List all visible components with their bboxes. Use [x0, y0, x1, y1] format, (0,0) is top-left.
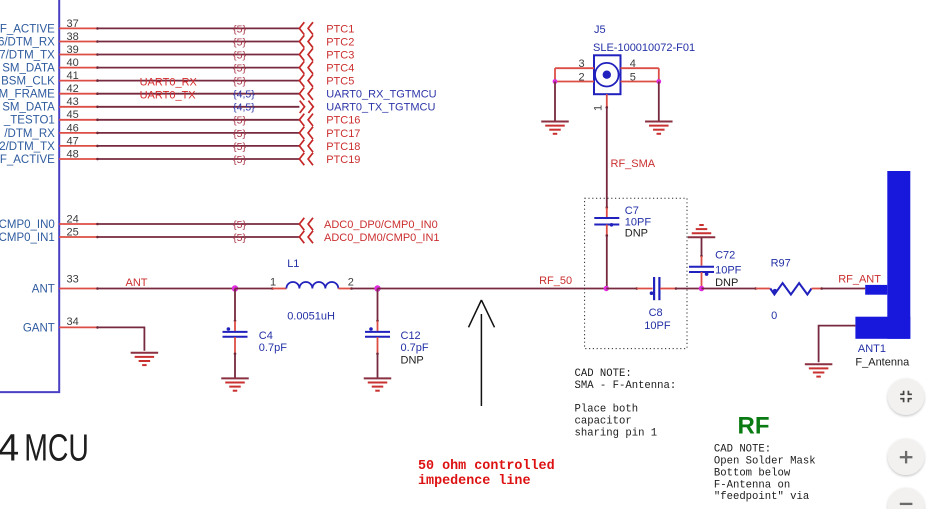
svg-text:CMP0_IN1: CMP0_IN1	[0, 232, 55, 244]
dashed annotation box around C7/C8	[585, 198, 687, 348]
svg-text:0.0051uH: 0.0051uH	[287, 311, 335, 323]
ground above C72 (inverted)	[688, 225, 716, 237]
svg-text:45: 45	[67, 109, 79, 121]
svg-text:UART0_TX_TGTMCU: UART0_TX_TGTMCU	[326, 102, 435, 114]
svg-text:PTC19: PTC19	[326, 154, 360, 166]
svg-text:39: 39	[67, 44, 79, 56]
wire net RF_50 (C12 junction to RF_SMA junction)	[378, 288, 607, 290]
off-page connector PTC17	[299, 127, 313, 139]
UI button: zoom in	[888, 438, 925, 475]
MCU pin 33 (ANT) stub	[59, 287, 99, 290]
svg-text:CAD NOTE:: CAD NOTE:	[575, 368, 632, 380]
svg-text:34: 34	[67, 316, 79, 328]
C72 top wire from ground	[700, 237, 703, 265]
svg-text:/DTM_RX: /DTM_RX	[4, 128, 55, 140]
svg-text:{5}: {5}	[233, 23, 246, 35]
wire net PTC5	[98, 80, 300, 82]
svg-text:UART0_RX: UART0_RX	[140, 77, 198, 89]
svg-text:7/DTM_TX: 7/DTM_TX	[0, 49, 55, 61]
svg-text:Place both: Place both	[575, 404, 639, 416]
wire net PTC19	[98, 158, 300, 160]
svg-text:UART0_RX_TGTMCU: UART0_RX_TGTMCU	[326, 89, 436, 101]
svg-text:4: 4	[0, 427, 19, 469]
svg-text:{5}: {5}	[233, 128, 246, 140]
off-page connector PTC16	[299, 114, 313, 126]
MCU pin 37 (F_ACTIVE) stub	[59, 27, 99, 30]
C8 pin-1 marker dot	[650, 291, 654, 295]
svg-text:PTC2: PTC2	[326, 36, 354, 48]
MCU pin 41 (BSM_CLK) stub	[59, 79, 99, 82]
svg-text:{4,5}: {4,5}	[233, 89, 255, 101]
svg-text:RF_SMA: RF_SMA	[611, 158, 656, 170]
ground below C4	[221, 378, 249, 390]
CAD note (Open Solder Mask)	[714, 444, 816, 503]
svg-text:42: 42	[67, 83, 79, 95]
svg-text:RF: RF	[738, 412, 770, 439]
MCU pin 42 (M_FRAME) stub	[59, 92, 99, 95]
off-page connector PTC2	[299, 35, 313, 47]
svg-text:Bottom below: Bottom below	[714, 467, 791, 479]
junction right of J5	[656, 79, 661, 84]
svg-text:F-Antenna on: F-Antenna on	[714, 479, 790, 491]
svg-text:{5}: {5}	[233, 232, 246, 244]
svg-text:{5}: {5}	[233, 36, 246, 48]
svg-text:PTC16: PTC16	[326, 115, 360, 127]
MCU pin 40 (SM_DATA) stub	[59, 66, 99, 69]
capacitor C72	[689, 267, 714, 272]
svg-text:1: 1	[593, 105, 605, 111]
svg-text:BSM_CLK: BSM_CLK	[1, 76, 55, 88]
svg-text:{5}: {5}	[233, 63, 246, 75]
wire net UART0_TX_TGTMCU	[98, 106, 300, 108]
off-page connector PTC18	[299, 140, 313, 152]
ground below antenna	[805, 364, 833, 376]
MCU pin 38 (6/DTM_RX) stub	[59, 40, 99, 43]
svg-text:43: 43	[67, 96, 79, 108]
svg-text:{5}: {5}	[233, 154, 246, 166]
MCU pin 46 (/DTM_RX) stub	[59, 132, 99, 135]
capacitor C4	[223, 332, 248, 337]
svg-text:Open Solder Mask: Open Solder Mask	[714, 456, 816, 468]
C72 pin-1 marker dot	[705, 272, 709, 276]
svg-text:1: 1	[270, 276, 276, 288]
off-page connector PTC4	[299, 61, 313, 73]
junction at C12	[374, 285, 380, 291]
UI button: zoom out	[888, 488, 925, 509]
svg-text:sharing pin 1: sharing pin 1	[575, 427, 658, 439]
svg-text:46: 46	[67, 122, 79, 134]
callout arrow (50 ohm line)	[469, 300, 495, 406]
svg-text:SLE-100010072-F01: SLE-100010072-F01	[593, 42, 695, 54]
J5 pins 4+5 wires to right	[621, 68, 659, 81]
svg-text:2: 2	[348, 276, 354, 288]
C4 bottom wire to ground	[234, 337, 237, 378]
wire ANT junction to L1	[235, 287, 286, 290]
svg-text:PTC4: PTC4	[326, 63, 354, 75]
svg-text:C4: C4	[259, 330, 273, 342]
svg-text:{5}: {5}	[233, 76, 246, 88]
C12 bottom wire to ground	[376, 337, 379, 378]
svg-text:38: 38	[67, 31, 79, 43]
wire antenna foot to ground	[819, 326, 856, 363]
CAD note (SMA - F-Antenna)	[575, 368, 677, 439]
svg-text:0.7pF: 0.7pF	[259, 342, 287, 354]
wire RF_50 to C8 left	[606, 287, 652, 290]
MCU pin 39 (7/DTM_TX) stub	[59, 53, 99, 56]
MCU pin 47 (2/DTM_TX) stub	[59, 145, 99, 148]
wire net PTC3	[98, 54, 300, 56]
svg-text:DNP: DNP	[401, 354, 424, 366]
MCU U4 part name text (clipped at left edge)	[0, 427, 89, 469]
inductor L1	[286, 282, 338, 288]
wire net PTC2	[98, 41, 300, 43]
wire net RF_SMA (J5 pin1 down to C7)	[606, 94, 609, 217]
ground for GANT	[131, 353, 159, 365]
svg-text:capacitor: capacitor	[575, 415, 632, 427]
svg-text:40: 40	[67, 57, 79, 69]
wire GANT to ground	[98, 327, 145, 350]
svg-text:C72: C72	[715, 250, 735, 262]
svg-text:SM_DATA: SM_DATA	[2, 102, 55, 114]
wire net RF_ANT (R97 to antenna)	[812, 287, 866, 290]
capacitor C8 (series)	[654, 277, 659, 300]
svg-text:PTC5: PTC5	[326, 76, 354, 88]
wire net ANT (pin33 to C4 junction)	[98, 288, 236, 290]
antenna ANT1 F_Antenna body	[855, 171, 910, 339]
wire net PTC17	[98, 132, 300, 134]
svg-text:10PF: 10PF	[644, 320, 671, 332]
svg-text:0.7pF: 0.7pF	[401, 342, 429, 354]
MCU pin 24 (CMP0_IN0) stub	[59, 223, 99, 226]
svg-text:RF_ANT: RF_ANT	[838, 274, 881, 286]
svg-text:"feedpoint" via: "feedpoint" via	[714, 491, 809, 503]
svg-text:GANT: GANT	[23, 322, 55, 334]
UI button: fit view	[888, 378, 925, 415]
MCU pin 34 (GANT) stub	[59, 326, 99, 329]
svg-text:C12: C12	[401, 330, 421, 342]
svg-text:F_ACTIVE: F_ACTIVE	[0, 154, 55, 166]
wire L1 pin2 to C12 junction	[338, 287, 377, 290]
svg-text:{5}: {5}	[233, 141, 246, 153]
J5 pins 3+2 wires to left	[555, 68, 594, 81]
svg-text:UART0_TX: UART0_TX	[140, 90, 197, 102]
wire net PTC18	[98, 145, 300, 147]
svg-text:{5}: {5}	[233, 115, 246, 127]
svg-text:ADC0_DM0/CMP0_IN1: ADC0_DM0/CMP0_IN1	[324, 232, 440, 244]
svg-text:L1: L1	[287, 258, 299, 270]
resistor R97 (0 ohm)	[770, 283, 811, 294]
svg-text:37: 37	[67, 18, 79, 30]
wire net ADC0_DP0/CMP0_IN0	[98, 223, 300, 225]
C72 bottom wire to RF line	[701, 272, 703, 289]
svg-text:ANT: ANT	[32, 283, 55, 295]
off-page connector ADC0_DM0/CMP0_IN1	[299, 231, 313, 243]
svg-text:2/DTM_TX: 2/DTM_TX	[0, 141, 55, 153]
svg-text:{5}: {5}	[233, 219, 246, 231]
C7 bottom wire to RF_50 junction	[606, 225, 609, 289]
wire net UART0_RX_TGTMCU	[98, 93, 300, 95]
off-page connector UART0_RX_TGTMCU	[299, 88, 313, 100]
wire C72 junction to R97	[702, 287, 771, 290]
svg-text:C7: C7	[625, 205, 639, 217]
MCU pin 45 (_TESTO1) stub	[59, 119, 99, 122]
svg-text:CMP0_IN0: CMP0_IN0	[0, 219, 55, 231]
MCU pin 25 (CMP0_IN1) stub	[59, 236, 99, 239]
wire left J5 junction to ground	[554, 82, 556, 122]
svg-text:47: 47	[67, 135, 79, 147]
svg-text:50 ohm controlled: 50 ohm controlled	[418, 459, 555, 474]
off-page connector PTC19	[299, 153, 313, 165]
svg-text:_TESTO1: _TESTO1	[3, 115, 55, 127]
wire right J5 junction to ground	[658, 82, 660, 122]
MCU pin 43 (SM_DATA) stub	[59, 106, 99, 109]
R97 pin-1 marker dot	[773, 289, 777, 293]
off-page connector PTC3	[299, 48, 313, 60]
C12 pin-1 marker dot	[369, 327, 373, 331]
svg-text:MCU: MCU	[24, 427, 89, 469]
svg-text:0: 0	[771, 310, 777, 322]
svg-text:F_ACTIVE: F_ACTIVE	[0, 23, 55, 35]
junction at C72 / RF line	[699, 286, 705, 292]
svg-text:PTC17: PTC17	[326, 128, 360, 140]
svg-text:24: 24	[67, 213, 79, 225]
ground below J5 left	[541, 122, 569, 134]
svg-text:J5: J5	[594, 24, 606, 36]
C4 pin-1 marker dot	[227, 327, 231, 331]
junction at C4 / ANT	[232, 285, 238, 291]
svg-text:M_FRAME: M_FRAME	[0, 89, 55, 101]
svg-text:DNP: DNP	[625, 228, 648, 240]
svg-text:F_Antenna: F_Antenna	[855, 357, 910, 369]
ground below C12	[364, 378, 392, 390]
svg-text:impedence line: impedence line	[418, 474, 531, 489]
junction RF_SMA / RF_50	[604, 286, 609, 291]
svg-text:DNP: DNP	[715, 277, 738, 289]
svg-text:ANT: ANT	[126, 277, 148, 289]
wire net PTC16	[98, 119, 300, 121]
junction left of J5	[553, 79, 558, 84]
off-page connector UART0_TX_TGTMCU	[300, 101, 314, 113]
off-page connector ADC0_DP0/CMP0_IN0	[299, 218, 313, 230]
svg-text:48: 48	[67, 148, 79, 160]
svg-text:SMA - F-Antenna:: SMA - F-Antenna:	[575, 380, 677, 392]
svg-text:ANT1: ANT1	[858, 343, 886, 355]
svg-text:PTC3: PTC3	[326, 49, 354, 61]
svg-text:C8: C8	[649, 307, 663, 319]
svg-text:{4,5}: {4,5}	[233, 102, 255, 114]
wire net ADC0_DM0/CMP0_IN1	[98, 236, 300, 238]
svg-text:PTC1: PTC1	[326, 23, 354, 35]
red note: 50 ohm controlled impedence line	[418, 459, 555, 489]
connector J5 body	[594, 55, 621, 94]
off-page connector PTC1	[299, 22, 313, 34]
svg-text:{5}: {5}	[233, 49, 246, 61]
svg-text:33: 33	[67, 273, 79, 285]
svg-text:ADC0_DP0/CMP0_IN0: ADC0_DP0/CMP0_IN0	[324, 219, 438, 231]
wire C8 right to C72 junction	[660, 287, 701, 290]
MCU pin 48 (F_ACTIVE) stub	[59, 158, 99, 161]
svg-text:PTC18: PTC18	[326, 141, 360, 153]
off-page connector PTC5	[299, 74, 313, 86]
svg-text:RF_50: RF_50	[539, 275, 572, 287]
capacitor C7	[594, 218, 619, 225]
MCU U4 body (left component border)	[0, 0, 59, 392]
wire net PTC1	[98, 27, 300, 29]
capacitor C4 top wire	[234, 289, 237, 331]
svg-text:6/DTM_RX: 6/DTM_RX	[0, 36, 55, 48]
wire net PTC4	[98, 67, 300, 69]
svg-text:R97: R97	[771, 258, 791, 270]
svg-text:CAD NOTE:: CAD NOTE:	[714, 444, 771, 456]
svg-text:SM_DATA: SM_DATA	[2, 63, 55, 75]
svg-text:25: 25	[67, 226, 79, 238]
ground below J5 right	[645, 122, 673, 134]
svg-text:41: 41	[67, 70, 79, 82]
C7 pin-1 marker dot	[610, 223, 614, 227]
capacitor C12	[365, 332, 390, 337]
capacitor C12 top wire	[376, 289, 379, 331]
svg-text:10PF: 10PF	[715, 265, 742, 277]
